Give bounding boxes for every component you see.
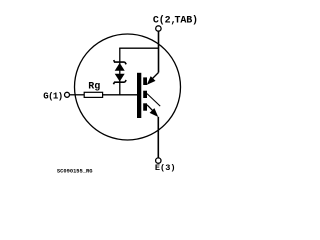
svg-text:G(1): G(1) — [43, 91, 62, 101]
wire gate from G terminal to Rg — [70, 94, 84, 96]
svg-text:SC090155_RG: SC090155_RG — [57, 169, 93, 175]
svg-text:E(3): E(3) — [155, 163, 176, 173]
IGBT channel dash top — [143, 77, 147, 85]
wire emitter diagonal — [147, 105, 156, 114]
package circle — [75, 34, 181, 140]
terminal G pin circle — [65, 92, 70, 97]
body diagonal line — [147, 94, 160, 107]
resistor Rg — [84, 92, 102, 97]
wire zener branch horizontal to collector — [119, 47, 158, 49]
emitter arrowhead — [150, 108, 159, 117]
wire gate from Rg to gate bar — [103, 94, 138, 96]
collector arrowhead — [147, 76, 156, 85]
svg-text:C(2,TAB): C(2,TAB) — [153, 14, 198, 26]
terminal C pin circle — [156, 26, 161, 31]
wire collector vertical — [158, 32, 160, 73]
zener diode D2 (cathode down) — [113, 74, 126, 84]
IGBT channel dash middle — [143, 91, 147, 98]
wire collector diagonal — [152, 73, 159, 80]
terminal E pin circle — [156, 158, 161, 163]
IGBT gate bar — [137, 73, 141, 118]
wire emitter vertical — [157, 117, 159, 158]
svg-text:Rg: Rg — [88, 82, 100, 93]
wire zener branch vertical — [119, 48, 121, 95]
IGBT channel dash bottom — [143, 103, 147, 110]
zener diode D1 (cathode up) — [114, 60, 127, 71]
